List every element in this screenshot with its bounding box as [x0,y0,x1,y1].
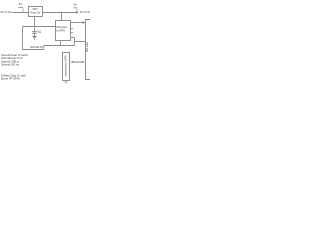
note battery charger [1,73,26,80]
capacitor C1 [32,27,42,37]
svg-text:DC Out 5V: DC Out 5V [80,10,90,14]
legend notes block [1,53,28,66]
svg-text:Boost TP GPIO: Boost TP GPIO [1,77,21,81]
double arrow transceiver to connector [71,61,85,63]
wire battery bus upper [44,45,75,47]
connector box J1 cut off at edge [85,20,90,80]
svg-text:DC In 12V: DC In 12V [1,10,12,14]
wire down to uProcessor [61,13,63,21]
wire jog up [43,46,45,50]
wire battery branch left [22,27,24,50]
transceiver box U3 [63,53,70,81]
wire FET output bus [43,12,77,14]
wire right riser [74,38,76,46]
svg-text:FET: FET [33,7,38,11]
wire dc input to FET box [12,12,28,14]
wire horizontal to uProcessor left [23,26,56,28]
FET power switch box U1 [29,7,43,17]
pin stub GPIO 2 [71,32,74,34]
svg-text:Power Sw: Power Sw [30,12,40,15]
wire uP to connector serial [71,22,84,24]
wire battery bus lower [22,49,44,51]
svg-text:transceiver GPS: transceiver GPS [64,55,67,76]
arrow DC out [76,11,78,13]
arrow into connector [83,21,86,24]
svg-text:10u: 10u [38,32,42,34]
power flag VIN [19,2,24,12]
wire FET bottom drop [34,17,36,27]
svg-text:5V: 5V [74,3,78,7]
wire to connector lower [75,41,86,43]
svg-text:LiPoly Batt 3V7: LiPoly Batt 3V7 [30,45,44,49]
junction dot at uP feed [61,12,62,13]
svg-text:Optional LED ind: Optional LED ind [1,62,19,66]
junction dot [34,26,35,27]
svg-text:w/ GPIO: w/ GPIO [56,30,65,33]
svg-text:RS-232: RS-232 [85,42,89,52]
svg-text:TP: TP [64,81,67,84]
uProcessor box U2 [56,21,71,41]
power flag at DC out [73,3,77,12]
pin stub GPIO 1 [71,28,74,30]
ground [33,37,37,40]
pin stub to right riser [71,37,75,39]
svg-text:5V: 5V [19,2,23,6]
wire uP bottom riser [60,41,62,46]
